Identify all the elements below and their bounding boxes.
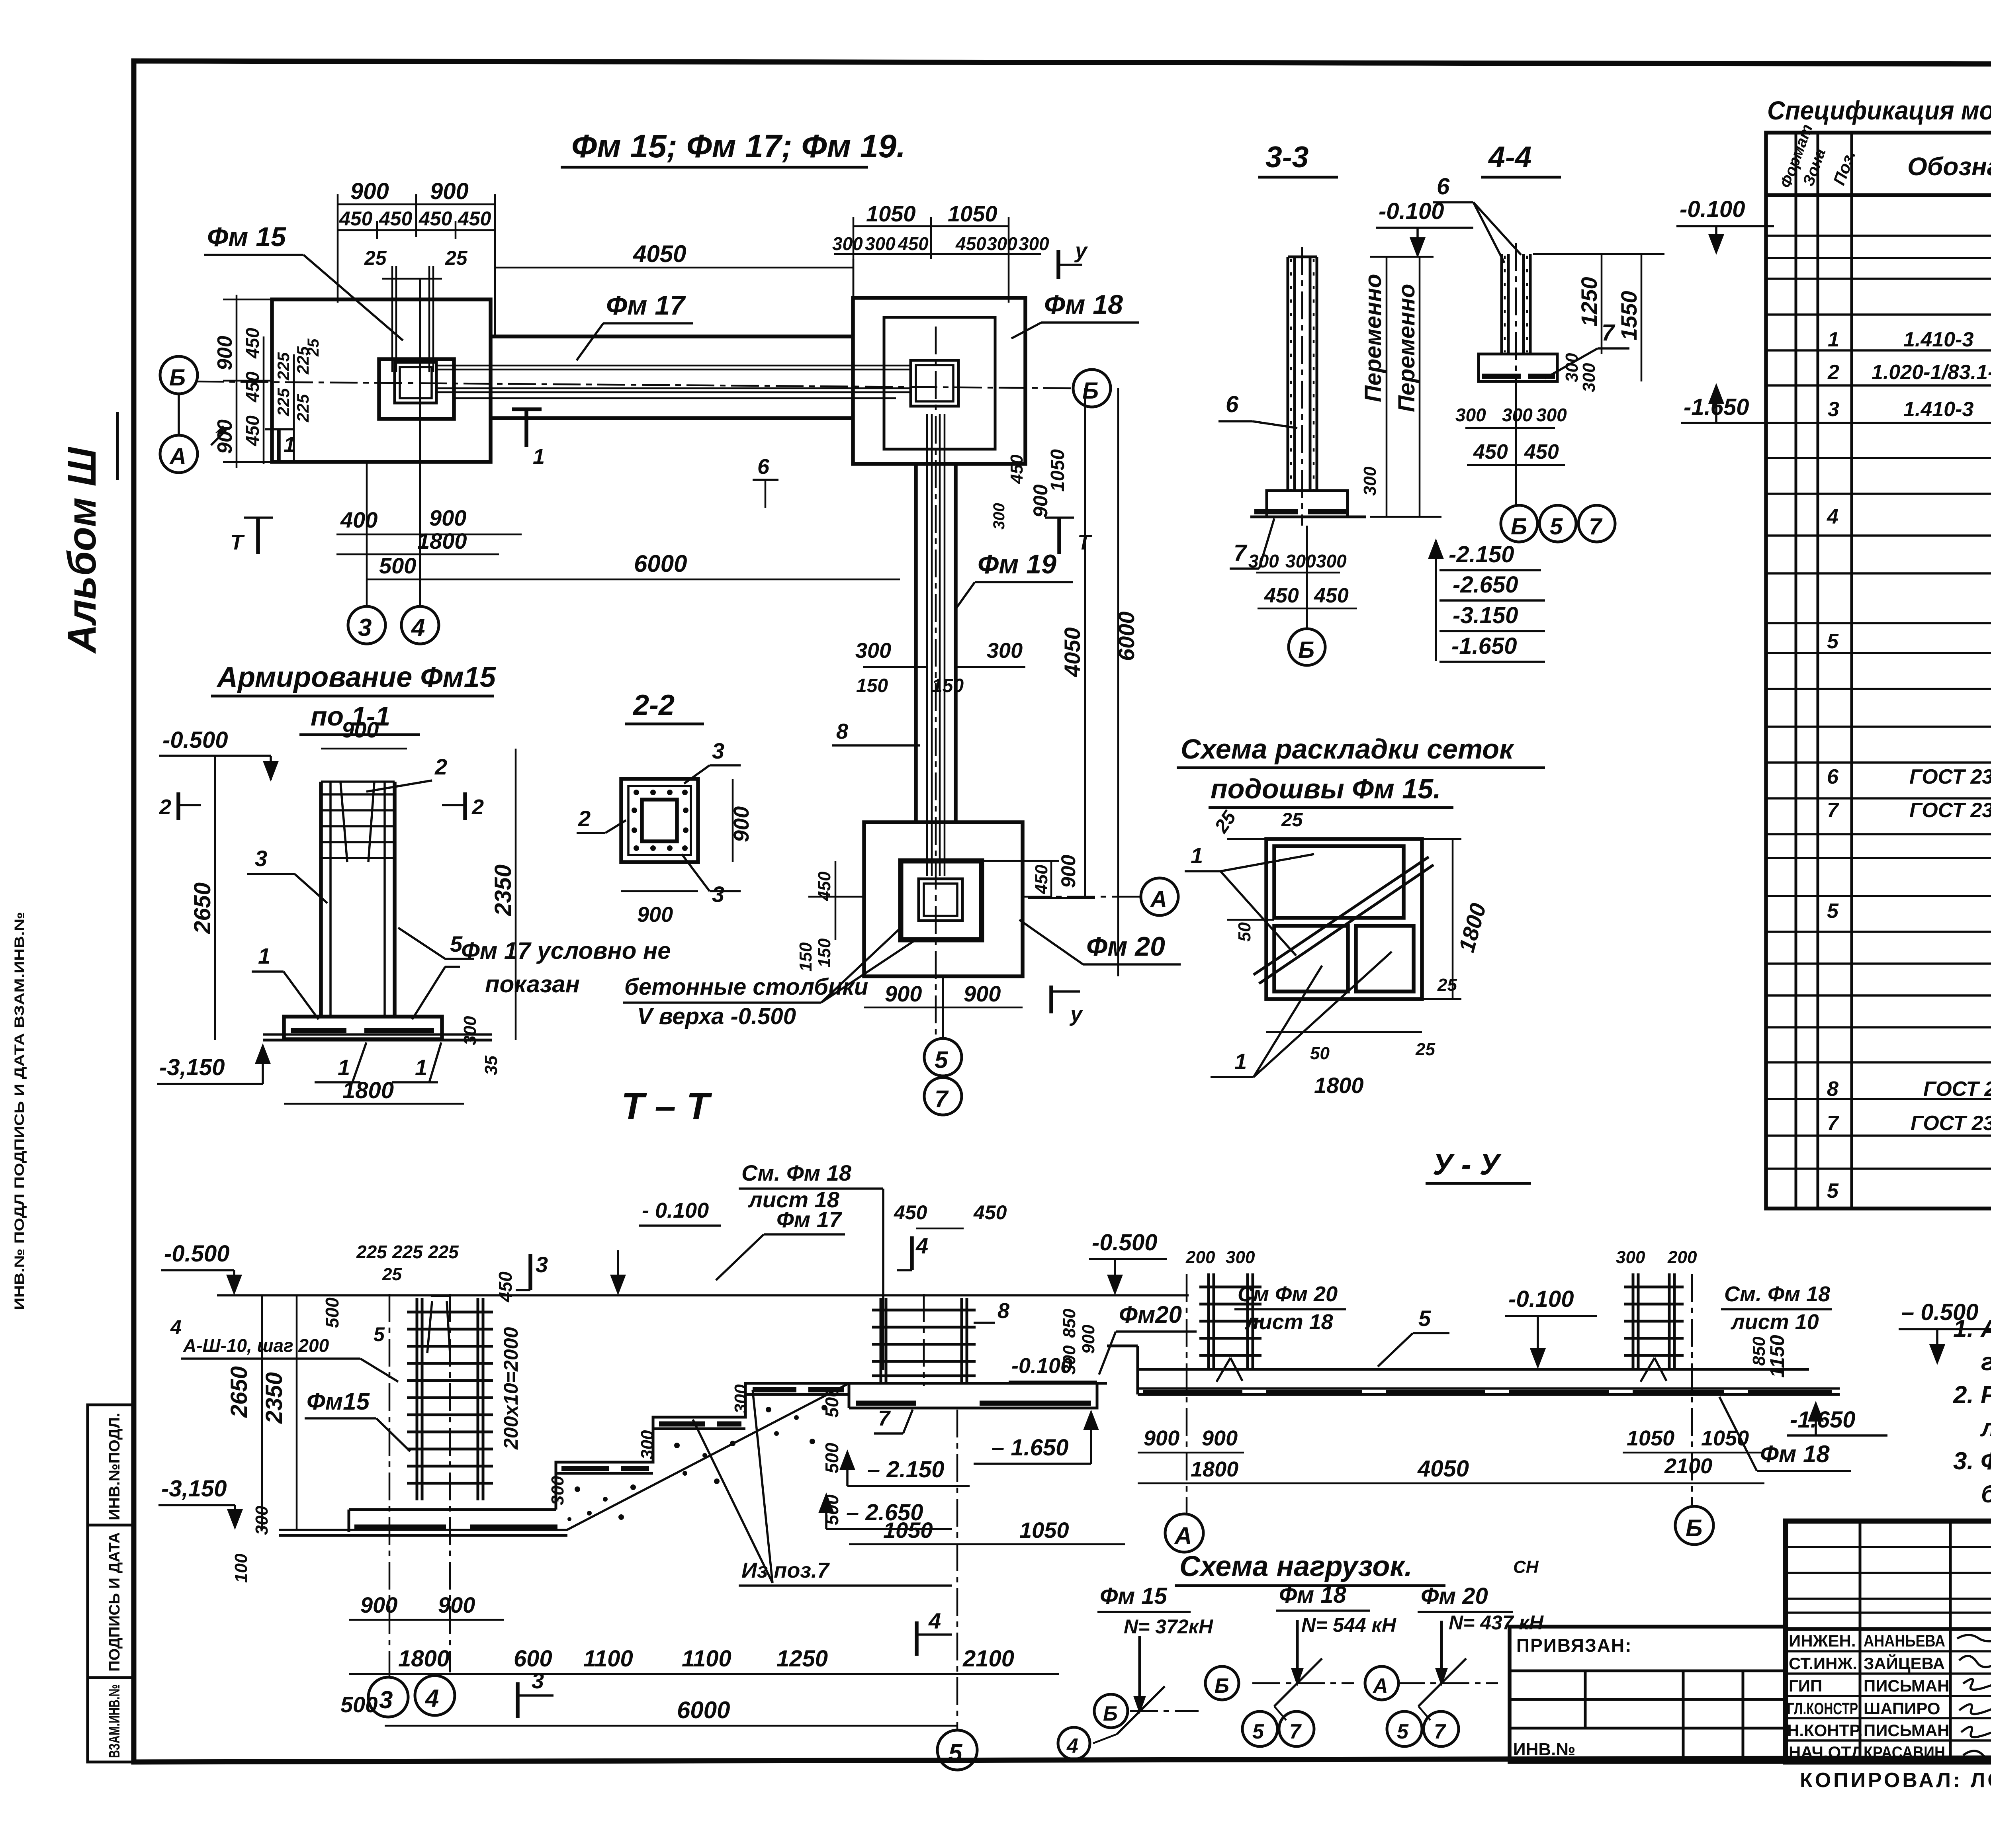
dims right 450 900 [983,861,1059,897]
svg-text:1550: 1550 [1616,291,1641,340]
svg-text:Фм 20: Фм 20 [1421,1583,1488,1609]
svg-text:5: 5 [949,1739,963,1767]
svg-text:900: 900 [360,1592,397,1617]
svg-text:25: 25 [445,247,468,269]
svg-text:у: у [1069,1002,1084,1026]
svg-text:1050: 1050 [1701,1426,1749,1450]
svg-text:225: 225 [428,1242,459,1262]
svg-text:1050: 1050 [948,201,997,226]
left grid verticals [1860,1521,1991,1762]
svg-text:1: 1 [284,433,295,457]
svg-text:300: 300 [1316,551,1347,571]
svg-text:2: 2 [159,795,171,819]
svg-text:ГЛ.КОНСТР: ГЛ.КОНСТР [1787,1699,1858,1718]
svg-text:450: 450 [1264,584,1299,607]
column body [319,782,323,1017]
svg-text:N= 437 кН: N= 437 кН [1449,1611,1544,1634]
svg-text:Фм 15: Фм 15 [1100,1583,1168,1609]
svg-text:ГОСТ 23279-85: ГОСТ 23279-85 [1909,799,1991,822]
svg-text:1150: 1150 [1766,1335,1788,1378]
peremenno dims [1370,257,1441,517]
rebar stubs in pad [382,266,442,372]
axis circle B [1306,526,1308,628]
svg-text:А: А [1372,1674,1388,1697]
svg-text:300: 300 [1536,405,1567,425]
svg-text:1.410-3: 1.410-3 [1903,398,1973,421]
svg-text:6: 6 [757,455,770,479]
svg-text:2: 2 [578,806,591,831]
svg-text:Обозначение: Обозначение [1907,152,1991,181]
right column ladder [1624,1273,1684,1369]
svg-text:-0.500: -0.500 [1092,1230,1157,1255]
schema nagruzok [1058,1551,1544,1759]
svg-text:1250: 1250 [776,1646,828,1672]
svg-text:1050: 1050 [1047,449,1068,492]
svg-text:Переменно: Переменно [1360,274,1386,402]
svg-text:300: 300 [855,639,891,663]
svg-text:ГОСТ 23279-85: ГОСТ 23279-85 [1909,765,1991,788]
svg-text:2350: 2350 [490,864,516,916]
svg-text:4050: 4050 [1417,1456,1469,1482]
svg-text:4: 4 [915,1233,928,1258]
svg-text:3: 3 [712,738,724,763]
svg-text:2: 2 [434,754,447,779]
dim 1050 1050 [853,217,1009,303]
svg-text:4: 4 [411,614,425,641]
slab bottom band [1138,1387,1840,1390]
svg-text:ПИСЬМАН: ПИСЬМАН [1864,1721,1950,1740]
svg-text:2-2: 2-2 [632,689,675,721]
dims below [1138,1452,1244,1454]
svg-text:Фм 15; Фм 17; Фм 19.: Фм 15; Фм 17; Фм 19. [571,128,906,164]
main horizontal line [1786,1627,1991,1631]
svg-text:5: 5 [1827,630,1839,653]
svg-text:50: 50 [1310,1044,1330,1063]
svg-text:1050: 1050 [1019,1518,1069,1543]
FM18 inner rect [884,317,995,449]
svg-text:450: 450 [379,207,413,230]
svg-text:25: 25 [364,247,387,269]
svg-text:1: 1 [338,1055,350,1080]
title block [1510,1521,1991,1792]
svg-text:-1.650: -1.650 [1451,633,1517,659]
svg-text:ГИП: ГИП [1789,1676,1822,1695]
plan view top-left [160,128,1139,1035]
svg-text:300: 300 [1616,1248,1645,1267]
svg-text:150: 150 [796,942,816,972]
left footing slab [349,1510,556,1532]
column square FM18 [911,360,958,406]
svg-text:300: 300 [1502,405,1533,425]
column square [919,879,962,921]
column square FM15 [395,362,436,403]
svg-text:- 0.100: - 0.100 [642,1199,709,1222]
top cage [321,782,395,862]
slab top [1138,1368,1809,1371]
svg-text:Фм 17: Фм 17 [606,290,686,321]
svg-text:См Фм 20: См Фм 20 [1238,1282,1338,1306]
axis circles 3,4,5 bottom [368,1677,408,1717]
diagonal soil cut [567,1383,849,1530]
svg-text:КОПИРОВАЛ: ЛОГИНОВА: КОПИРОВАЛ: ЛОГИНОВА [1800,1769,1991,1792]
axes [1186,1274,1188,1513]
beam rebar bundle [436,366,912,398]
svg-text:Схема нагрузок.: Схема нагрузок. [1179,1551,1412,1582]
row lines [1766,236,1991,1169]
svg-text:300: 300 [990,503,1008,530]
armirovanie 1-1 elevation [157,661,671,1104]
Y section mark top [1056,250,1060,279]
svg-text:450: 450 [419,207,452,230]
svg-text:5: 5 [1397,1720,1409,1743]
FM19 rebar [927,414,945,876]
1 section mark below beam [512,407,542,411]
svg-text:Б: Б [1103,1702,1118,1725]
outer box [1786,1521,1991,1762]
inner mesh 1 [1274,846,1404,918]
svg-text:850: 850 [1749,1336,1769,1366]
svg-text:450: 450 [242,372,263,403]
svg-text:Т: Т [230,530,245,554]
svg-text:6000: 6000 [634,550,687,577]
svg-text:4: 4 [1827,505,1838,528]
svg-text:3: 3 [1828,398,1839,421]
svg-text:ЗАЙЦЕВА: ЗАЙЦЕВА [1864,1654,1945,1673]
dim 450x4 [338,221,495,239]
svg-text:А: А [1150,886,1167,912]
svg-text:1: 1 [533,445,545,469]
svg-text:Т – Т: Т – Т [621,1085,712,1127]
svg-text:1050: 1050 [883,1518,933,1543]
svg-text:У - У: У - У [1433,1148,1502,1181]
dim 300 300 450 450 300 300 [834,253,1041,255]
svg-text:Фм 18: Фм 18 [1044,289,1123,320]
svg-text:7: 7 [1827,1112,1839,1135]
svg-text:225: 225 [293,394,312,422]
dims below [1256,572,1340,574]
svg-text:4050: 4050 [1060,627,1085,677]
svg-text:200: 200 [1185,1248,1215,1267]
svg-text:лист 18: лист 18 [1244,1310,1333,1334]
axis circle B right [1073,370,1111,407]
wall centerline [1301,247,1303,526]
svg-text:225: 225 [392,1242,423,1262]
axis circles 5,7 below [942,976,944,1038]
outer square [621,779,698,862]
svg-text:1: 1 [1828,328,1839,351]
svg-text:300: 300 [1285,551,1316,571]
Y mark bottom [1049,986,1053,1013]
svg-text:3-3: 3-3 [1265,140,1308,174]
svg-text:900: 900 [430,178,469,204]
axis circle 4 [401,606,439,644]
svg-text:Фм 18: Фм 18 [1760,1441,1830,1467]
svg-text:900: 900 [730,806,753,842]
svg-text:ИНВ.№: ИНВ.№ [1513,1740,1575,1759]
svg-text:3. Фундаменты ФМ 15, ФП, ФМ18,: 3. Фундаменты ФМ 15, ФП, ФМ18, ФМ 19 и Ф… [1953,1447,1991,1475]
svg-text:1800: 1800 [1191,1457,1238,1481]
svg-text:300: 300 [832,233,863,254]
diagonal mesh strip [1254,857,1429,975]
svg-text:-0.500: -0.500 [162,727,228,753]
svg-text:450: 450 [898,233,929,254]
svg-text:450: 450 [1473,440,1508,463]
svg-text:Фм 17: Фм 17 [776,1207,843,1232]
name rows [1786,1651,1991,1740]
dim 1800 bottom [284,1103,464,1105]
pedestal FM15 [379,359,454,419]
rebar dots [632,790,688,851]
svg-text:300: 300 [1579,363,1599,392]
svg-text:300: 300 [460,1016,480,1045]
svg-text:3: 3 [379,1686,393,1714]
header bottom [1766,193,1991,197]
svg-text:Фм 18: Фм 18 [1279,1582,1347,1608]
axis circles [1515,392,1517,505]
axis 5 vertical dash-dot [935,327,937,1035]
svg-text:АНАНЬЕВА: АНАНЬЕВА [1864,1631,1945,1650]
svg-text:ГОСТ 23279-85: ГОСТ 23279-85 [1911,1112,1991,1135]
svg-text:3: 3 [532,1668,544,1693]
footing at -1.650 [849,1383,1107,1408]
svg-text:3: 3 [536,1252,548,1277]
svg-text:5: 5 [374,1323,385,1345]
left pad FM15 outline [272,299,491,462]
svg-text:50: 50 [1235,922,1254,942]
svg-text:900: 900 [885,981,922,1006]
svg-text:КРАСАВИН: КРАСАВИН [1864,1743,1945,1762]
svg-text:ГОСТ 232-9-85: ГОСТ 232-9-85 [1923,1078,1991,1101]
svg-text:Из поз.7: Из поз.7 [741,1559,830,1582]
svg-text:1100: 1100 [682,1646,731,1672]
svg-text:2100: 2100 [1664,1454,1712,1478]
svg-text:V верха -0.500: V верха -0.500 [637,1003,796,1029]
svg-text:25: 25 [305,338,322,357]
svg-text:ПОДПИСЬ И ДАТА: ПОДПИСЬ И ДАТА [106,1532,123,1672]
svg-text:5: 5 [1550,514,1563,540]
svg-text:25: 25 [1415,1040,1435,1059]
svg-text:– 2.150: – 2.150 [867,1457,945,1482]
T section marks [256,518,260,554]
schema raskladki [1177,733,1545,1098]
svg-text:450: 450 [815,871,834,901]
beam FM17 bottom edge [491,416,853,420]
svg-text:900: 900 [213,336,237,370]
svg-text:-0.100: -0.100 [1011,1354,1072,1378]
svg-text:5: 5 [1827,900,1839,923]
svg-text:у: у [1074,239,1088,263]
dim 1800 [336,553,499,555]
svg-text:Фм 19: Фм 19 [978,549,1056,579]
svg-text:ВЗАМ.ИНВ.№: ВЗАМ.ИНВ.№ [106,1684,123,1758]
upper blank rows of left grid [1786,1547,1991,1613]
svg-text:900: 900 [964,981,1001,1006]
svg-text:Б: Б [1686,1515,1702,1541]
svg-text:3: 3 [255,846,267,871]
svg-text:СТ.ИНЖ.: СТ.ИНЖ. [1789,1654,1857,1673]
svg-text:8: 8 [836,720,848,743]
svg-text:900: 900 [342,717,379,742]
svg-text:450: 450 [242,328,263,359]
wall stipple [1291,259,1314,490]
svg-text:1: 1 [415,1055,427,1080]
right column ladder FM19 [881,1298,967,1383]
svg-text:25: 25 [1437,975,1457,995]
U-U section [1107,1248,1991,1552]
svg-text:Фм 15: Фм 15 [207,222,286,252]
svg-text:показан: показан [485,971,580,997]
pad outline [864,822,1023,976]
svg-text:4-4: 4-4 [1488,140,1531,174]
svg-text:-3,150: -3,150 [161,1476,227,1502]
steps [556,1383,849,1510]
ground level line -0.500 [217,1294,1189,1297]
svg-text:-3.150: -3.150 [1453,602,1518,628]
dim 4050 [495,267,853,269]
svg-text:225: 225 [274,388,293,417]
section 4-4 [1433,140,1778,542]
svg-text:900: 900 [438,1592,475,1617]
svg-text:1250: 1250 [1576,277,1602,327]
svg-text:25: 25 [382,1265,402,1284]
left edge step [1136,1346,1139,1394]
svg-text:3: 3 [712,882,724,907]
svg-text:1. Арматурную сетку поз. 6 Выр: 1. Арматурную сетку поз. 6 Вырезать по [1953,1315,1991,1343]
table outer [1766,133,1991,1209]
svg-text:ИНВ.№ ПОДЛ ПОДПИСЬ И ДАТА ВЗ: ИНВ.№ ПОДЛ ПОДПИСЬ И ДАТА ВЗАМ.ИНВ.№ [12,912,27,1310]
left column ladder [1199,1273,1261,1369]
svg-text:1.020-1/83.1-1.0.3.0-01: 1.020-1/83.1-1.0.3.0-01 [1872,361,1991,384]
svg-text:900: 900 [350,178,389,204]
svg-text:N= 544 кН: N= 544 кН [1301,1614,1396,1636]
right vertical dims 4050 6000 [1028,388,1118,976]
svg-text:6000: 6000 [1114,611,1139,661]
svg-text:25: 25 [1281,810,1303,831]
bottom pad FM20 plan [0,0,0,0]
svg-text:2350: 2350 [261,1372,287,1424]
svg-text:Н.КОНТР.: Н.КОНТР. [1787,1721,1863,1740]
svg-text:Схема раскладки сеток: Схема раскладки сеток [1181,733,1515,765]
svg-text:4050: 4050 [633,241,686,267]
svg-text:Фм 17 условно не: Фм 17 условно не [461,937,671,964]
svg-text:5: 5 [1418,1306,1431,1331]
svg-text:7: 7 [1602,320,1615,346]
signatures squiggles [1957,1635,1991,1758]
svg-text:-0.100: -0.100 [1508,1286,1574,1312]
svg-text:450: 450 [495,1271,516,1302]
svg-text:900: 900 [1144,1426,1179,1450]
dims 900 [732,779,734,862]
svg-text:300: 300 [987,639,1023,663]
elevation list [1428,538,1545,662]
svg-text:300: 300 [987,233,1017,254]
svg-text:-3,150: -3,150 [159,1054,225,1080]
svg-text:2: 2 [471,795,484,819]
svg-text:подошвы Фм 15.: подошвы Фм 15. [1211,773,1441,804]
dims 450 150 left [808,861,864,940]
svg-text:Спецификация монолитных фундам: Спецификация монолитных фундаментов Фм15… [1767,96,1991,125]
svg-text:См. Фм 18: См. Фм 18 [741,1160,852,1185]
svg-text:Б: Б [1298,637,1314,663]
svg-text:150: 150 [932,675,964,696]
svg-text:5: 5 [1252,1720,1264,1743]
svg-text:2100: 2100 [962,1646,1014,1672]
section 2-2 [577,689,753,927]
svg-text:8: 8 [997,1299,1009,1323]
svg-text:1.410-3: 1.410-3 [1903,328,1973,351]
svg-text:450: 450 [458,207,491,230]
axis circle A right with dash-dot [1023,896,1140,898]
footing [284,1017,442,1039]
svg-text:900: 900 [1202,1426,1238,1450]
svg-text:200х10=2000: 200х10=2000 [500,1327,522,1450]
2 section marks [176,792,180,820]
step bands with rebar strips [556,1394,849,1473]
axis circle B left [160,356,198,394]
svg-text:Б: Б [1511,514,1527,540]
svg-text:Б: Б [1215,1674,1229,1697]
svg-text:-0.100: -0.100 [1680,196,1745,222]
svg-text:бетонировать совместно.: бетонировать совместно. [1981,1480,1991,1508]
svg-text:1800: 1800 [417,528,467,553]
svg-text:ИНЖЕН.: ИНЖЕН. [1789,1631,1856,1650]
svg-text:300: 300 [1562,353,1582,382]
anchor bolts top [427,1296,450,1353]
svg-text:900: 900 [637,903,673,927]
beam FM17 top edge [491,334,853,338]
svg-text:4: 4 [928,1608,941,1633]
svg-text:225: 225 [356,1242,387,1262]
svg-text:7: 7 [1234,540,1248,566]
vertical column lines [1796,133,1991,1209]
footing [1267,491,1348,517]
svg-text:-2.150: -2.150 [1449,542,1514,567]
svg-text:Фм 20: Фм 20 [1086,931,1165,962]
svg-text:1800: 1800 [1314,1073,1364,1098]
svg-text:ПИСЬМАН: ПИСЬМАН [1864,1676,1950,1695]
svg-text:500: 500 [821,1387,842,1418]
dim 900 900 top [338,194,495,303]
svg-text:100: 100 [231,1553,251,1583]
inner pedestal [901,861,982,940]
svg-text:450: 450 [894,1201,927,1224]
svg-text:1800: 1800 [398,1646,450,1672]
svg-text:7: 7 [1827,799,1839,822]
svg-text:300: 300 [865,233,896,254]
svg-text:300: 300 [548,1476,567,1505]
svg-text:900: 900 [429,505,466,530]
section marks 3 top/bottom [528,1254,532,1290]
svg-text:1: 1 [1191,843,1203,868]
left sidebar [12,412,134,1762]
dims right [1533,254,1664,381]
axis B dash-dot [196,381,1073,388]
svg-text:150: 150 [856,675,888,696]
svg-text:200: 200 [1667,1248,1697,1267]
svg-text:1050: 1050 [866,201,916,226]
axis circle 3 [348,606,385,644]
specification table [1766,96,1991,1209]
svg-text:300: 300 [731,1384,751,1414]
wall [1502,254,1530,354]
svg-text:7: 7 [878,1406,891,1430]
svg-text:1: 1 [258,943,270,968]
section 2-2 [0,0,0,0]
inner mesh 2 [1274,926,1348,991]
svg-text:1100: 1100 [583,1646,633,1672]
T-T section [158,1160,1197,1770]
svg-text:А: А [1174,1522,1192,1549]
